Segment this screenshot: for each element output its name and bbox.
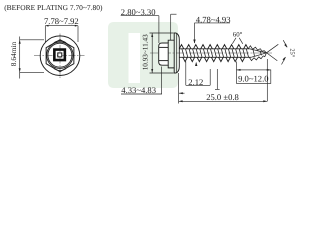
boss circle outer [47,42,73,68]
centerline horizontal [34,55,85,57]
hexagon [46,40,74,72]
washer flange [174,33,179,73]
svg-text:60°: 60° [233,31,243,38]
svg-text:2.80~3.30: 2.80~3.30 [121,7,156,17]
watermark logo [108,22,178,88]
dimension 25.0 +-0.8 [179,59,268,104]
hex head side view [159,33,180,73]
svg-text:4.33~4.83: 4.33~4.83 [121,85,156,95]
svg-text:10.93~11.43: 10.93~11.43 [142,34,150,70]
dimension 4.33~4.83 [121,67,162,95]
hex block [159,43,169,65]
side view centerline [150,52,272,54]
dimension 8.64min [19,37,44,79]
thread angle 60 [232,38,243,44]
hex chamfer arc top [54,41,66,43]
washer circle [40,36,80,76]
point angle callout [267,40,288,64]
dimension 2.12 [179,62,220,95]
svg-text:9.0~12.0: 9.0~12.0 [238,73,268,83]
dimension 2.80~3.30 [121,14,177,43]
square recess center [58,53,62,57]
centerline vertical [59,34,61,79]
front view group [34,34,85,79]
dimension 9.0~12.0 box [237,62,271,84]
bottom thread teeth [183,57,245,61]
washer inner edge [176,34,178,73]
top thread teeth [179,45,248,49]
svg-text:8.64min: 8.64min [9,41,18,66]
svg-text:4.78~4.93: 4.78~4.93 [196,14,231,24]
screw point [248,46,266,61]
hex chamfer arc bottom [54,69,66,71]
flange step [168,40,174,68]
thread root lines [179,49,251,58]
thread flank lines [182,49,249,58]
hex facet lines [159,46,169,48]
svg-text:7.78~7.92: 7.78~7.92 [44,16,79,26]
svg-text:25°: 25° [289,49,296,58]
dimension 10.93~11.43 [150,33,174,73]
svg-text:25.0 ±0.8: 25.0 ±0.8 [206,92,239,102]
dimension 7.78~7.92 [45,25,78,42]
dimension 4.78~4.93 [193,23,230,66]
square recess ring [54,50,65,61]
svg-text:2.12: 2.12 [188,77,203,87]
boss circle inner [48,43,72,67]
svg-text:(BEFORE PLATING 7.70~7.80): (BEFORE PLATING 7.70~7.80) [4,3,103,12]
